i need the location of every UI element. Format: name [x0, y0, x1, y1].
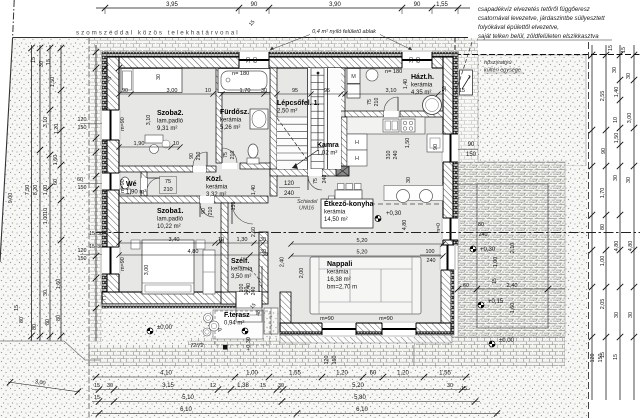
svg-text:30: 30 [613, 175, 619, 181]
level marker +-0,00 left [147, 328, 153, 334]
svg-text:30: 30 [447, 383, 453, 389]
svg-text:M: M [351, 74, 356, 80]
level marker +-0,00 right [489, 341, 495, 347]
window nappali bottom 1 [322, 321, 356, 337]
bottom paving brick strip in front of house [89, 344, 414, 366]
svg-text:60: 60 [463, 283, 469, 289]
svg-text:4,80: 4,80 [402, 220, 408, 231]
hazth dim row [345, 93, 443, 95]
svg-text:2,40: 2,40 [507, 283, 518, 289]
bottom dimension line 1 [92, 376, 470, 378]
partition stair south wall [270, 169, 308, 176]
svg-text:30: 30 [260, 237, 266, 243]
svg-text:95: 95 [292, 88, 298, 94]
svg-text:1,20: 1,20 [54, 124, 60, 135]
svg-text:30: 30 [107, 383, 113, 389]
svg-text:F.terasz: F.terasz [224, 312, 250, 319]
svg-text:15: 15 [613, 354, 619, 360]
svg-text:lam.padló: lam.padló [157, 119, 184, 125]
svg-text:5,80: 5,80 [354, 395, 366, 401]
svg-text:120: 120 [324, 356, 330, 365]
svg-text:240: 240 [284, 191, 295, 197]
vertical dashed connector top right [454, 38, 456, 55]
armchairs near terrace door [384, 186, 443, 201]
svg-text:6,10: 6,10 [180, 407, 192, 413]
svg-text:1,38: 1,38 [237, 383, 249, 389]
svg-text:80: 80 [45, 319, 51, 325]
svg-text:±0,00: ±0,00 [157, 325, 173, 331]
svg-text:1,55: 1,55 [439, 371, 451, 377]
svg-text:3,15: 3,15 [162, 383, 174, 389]
furdoszoba dim row [222, 93, 270, 95]
svg-text:210: 210 [208, 207, 214, 216]
stipple under building south facade [89, 311, 414, 345]
svg-text:10: 10 [613, 117, 619, 123]
svg-text:150: 150 [332, 356, 338, 365]
nappali bottom wall insulation [280, 332, 451, 335]
svg-text:30: 30 [626, 177, 632, 183]
nappali bottom wall masonry [280, 323, 451, 332]
svg-text:210: 210 [230, 151, 236, 160]
fridge [427, 134, 443, 152]
svg-text:1,50: 1,50 [614, 133, 620, 144]
svg-text:30: 30 [39, 61, 45, 67]
svg-text:3,10: 3,10 [43, 117, 49, 128]
svg-text:1,00: 1,00 [600, 256, 606, 267]
svg-text:Nappali: Nappali [327, 261, 352, 268]
exterior wall szelf bottom [221, 292, 268, 304]
building floor slab base [119, 68, 451, 335]
svg-text:1,30: 1,30 [237, 237, 248, 243]
left strip dashed edge [88, 38, 90, 418]
partition furdoszoba - lepcso [270, 68, 277, 196]
svg-text:kerámia: kerámia [220, 118, 242, 124]
window west wall we 60-150 [100, 173, 121, 190]
hazth washing machines [347, 69, 360, 84]
right lot dashed line vertical [588, 42, 590, 418]
svg-text:kültéri egysége: kültéri egysége [484, 68, 521, 74]
west slanted lot boundary line [0, 38, 13, 263]
svg-text:Lépcsőfel. 1.: Lépcsőfel. 1. [277, 100, 319, 107]
svg-text:1,00: 1,00 [43, 185, 49, 196]
svg-text:6,10: 6,10 [356, 407, 368, 413]
svg-text:30: 30 [246, 57, 252, 63]
exterior wall east insulation lower [451, 268, 454, 335]
svg-text:4,35 m²: 4,35 m² [411, 90, 431, 96]
svg-text:3,90: 3,90 [329, 2, 341, 8]
svg-text:2,10: 2,10 [510, 243, 516, 254]
window top wall furdoszoba 90 [239, 50, 269, 70]
door szoba2 [193, 166, 206, 172]
exterior wall east masonry upper [443, 57, 453, 245]
nappali exterior plinth band [280, 335, 452, 343]
right dashed property line at top [455, 54, 640, 56]
svg-text:90: 90 [189, 153, 195, 159]
bottom-right paving brick strip [414, 337, 565, 366]
svg-text:bm=2,70 m: bm=2,70 m [327, 285, 357, 291]
svg-text:5,20: 5,20 [352, 383, 364, 389]
svg-text:saját telken belül, zöldfelüle: saját telken belül, zöldfelületen elszik… [478, 33, 599, 40]
svg-text:150: 150 [78, 125, 87, 131]
svg-text:kerámia: kerámia [411, 83, 433, 89]
svg-text:kerámia: kerámia [231, 267, 253, 273]
svg-text:30: 30 [409, 57, 415, 63]
svg-text:3,32 m²: 3,32 m² [206, 192, 226, 198]
svg-text:m=90: m=90 [120, 257, 126, 271]
svg-text:2,40: 2,40 [246, 283, 252, 293]
north strip between boundary and house - light texture [89, 38, 478, 52]
exterior wall top masonry [107, 57, 453, 68]
svg-text:90: 90 [251, 2, 258, 8]
svg-text:15: 15 [492, 278, 498, 284]
svg-text:0,94 m²: 0,94 m² [224, 321, 244, 327]
exterior wall east insulation upper [453, 52, 458, 245]
svg-text:+0,30: +0,30 [480, 247, 496, 253]
leader from note to building [455, 42, 472, 95]
svg-text:60: 60 [77, 177, 83, 183]
level marker terasz +0,30 [470, 246, 476, 252]
exterior wall west insulation [102, 52, 107, 308]
svg-text:15: 15 [461, 386, 467, 392]
exterior wall west masonry [107, 57, 119, 304]
svg-text:Szoba1.: Szoba1. [157, 208, 184, 215]
west strip between boundary strip and house [89, 52, 102, 344]
svg-text:15: 15 [94, 395, 100, 401]
szoba2 desk and chair [145, 135, 163, 143]
partition above szoba1 [119, 196, 200, 203]
svg-text:m=90: m=90 [120, 179, 126, 193]
svg-text:72/72: 72/72 [191, 343, 204, 349]
svg-text:0,4 m² nyíló felületű ablak: 0,4 m² nyíló felületű ablak [312, 29, 377, 35]
svg-text:10: 10 [173, 141, 179, 147]
partition furdoszoba bottom [240, 163, 270, 169]
svg-text:15: 15 [46, 59, 52, 65]
partition we east wall [141, 172, 147, 196]
svg-text:+0,30: +0,30 [386, 211, 402, 217]
svg-text:m=90: m=90 [320, 316, 334, 322]
szoba1 dim row 2 [119, 254, 268, 256]
svg-text:m=0: m=0 [436, 223, 442, 233]
svg-text:30: 30 [262, 252, 268, 258]
svg-text:1,90: 1,90 [134, 141, 145, 147]
stair dim row [277, 93, 341, 95]
door hazth [384, 111, 398, 117]
nappali west wall [280, 292, 291, 335]
bank edge line bottom-left [0, 341, 100, 360]
svg-text:H: H [355, 156, 359, 162]
svg-text:240: 240 [427, 258, 436, 264]
dining table [335, 190, 362, 218]
level marker terrace +0,15 [478, 302, 484, 308]
svg-text:120: 120 [78, 248, 87, 254]
assorted ticks near top-left corner [102, 65, 108, 71]
svg-text:120: 120 [590, 354, 596, 363]
svg-text:150: 150 [78, 185, 87, 191]
svg-text:1,55: 1,55 [436, 2, 448, 8]
svg-text:75: 75 [313, 178, 319, 184]
svg-text:3,10: 3,10 [386, 88, 397, 94]
svg-text:3,00: 3,00 [167, 88, 178, 94]
svg-text:15: 15 [31, 57, 37, 63]
svg-text:100: 100 [239, 284, 245, 293]
svg-text:Étkező-konyha: Étkező-konyha [324, 199, 374, 208]
bottom-left ground stipple below bank line [0, 341, 89, 418]
svg-text:80: 80 [600, 224, 606, 230]
level marker f.terasz [242, 328, 248, 334]
svg-text:7,50: 7,50 [25, 185, 31, 196]
shower tray [250, 109, 268, 129]
bottom dimension line 2 [92, 389, 470, 391]
left dim column lines [31, 45, 33, 341]
exterior wall szelf east segment [259, 232, 268, 292]
exterior wall east masonry lower nappali [441, 268, 451, 335]
svg-text:2,40: 2,40 [280, 257, 286, 267]
chimney schiedel block [336, 166, 349, 176]
szoba2 interior dim row [119, 93, 216, 95]
svg-text:csatornával levezetve, járdasz: csatornával levezetve, járdaszintbe süll… [478, 15, 605, 22]
hazth boiler [423, 96, 442, 115]
svg-text:1,00: 1,00 [43, 214, 49, 225]
svg-text:30: 30 [614, 312, 620, 318]
svg-text:5,10: 5,10 [182, 395, 194, 401]
terrace dims [458, 288, 565, 290]
svg-text:10: 10 [43, 208, 49, 214]
svg-text:1,90 m²: 1,90 m² [126, 190, 146, 196]
svg-text:3,40: 3,40 [169, 237, 180, 243]
svg-text:60: 60 [370, 371, 377, 377]
svg-text:szomszéddal közös telekhatárvo: szomszéddal közös telekhatárvonal [76, 30, 240, 37]
east terrace brick paving [458, 162, 565, 337]
svg-text:Szélf.: Szélf. [231, 258, 249, 265]
kitchen stove [401, 119, 415, 132]
svg-text:1,02 m²: 1,02 m² [317, 151, 337, 157]
svg-text:10: 10 [205, 88, 211, 94]
svg-text:4,80: 4,80 [188, 249, 199, 255]
svg-text:80: 80 [56, 315, 62, 321]
kitchen sink [383, 119, 399, 132]
svg-text:80: 80 [478, 222, 484, 228]
svg-text:210: 210 [163, 187, 172, 193]
svg-text:Fürdősz.: Fürdősz. [220, 109, 249, 116]
svg-text:15: 15 [621, 47, 627, 53]
svg-text:3,50 m²: 3,50 m² [231, 274, 251, 280]
svg-text:9,00: 9,00 [8, 193, 14, 204]
east strip above terrace [458, 52, 478, 162]
svg-text:kerámia: kerámia [206, 185, 228, 191]
svg-text:+0,15: +0,15 [488, 299, 504, 305]
door east wall kitchen terrace 80-240 [441, 218, 460, 240]
svg-text:150: 150 [466, 152, 477, 158]
svg-text:30: 30 [97, 244, 103, 250]
svg-text:n= 180: n= 180 [385, 69, 402, 75]
szoba2 bed [121, 69, 182, 93]
top-left corner lot line vertical [13, 0, 15, 38]
svg-text:12: 12 [210, 383, 216, 389]
door kamra [308, 169, 322, 176]
right stipple strip south [565, 166, 588, 366]
svg-text:210: 210 [374, 98, 380, 107]
window east wall nappali 100-240 [439, 245, 456, 270]
f.terasz white slab [213, 310, 263, 339]
svg-text:210: 210 [196, 152, 202, 161]
svg-text:1,00: 1,00 [246, 371, 258, 377]
svg-text:30: 30 [261, 88, 267, 94]
svg-text:60: 60 [416, 57, 422, 63]
top property line [13, 37, 468, 39]
wc we room [120, 189, 131, 194]
svg-text:5,20: 5,20 [357, 238, 368, 244]
door furdoszoba [222, 163, 237, 169]
partition hazth west [339, 68, 345, 111]
svg-text:75: 75 [223, 152, 229, 158]
window west wall szoba1 150 [100, 247, 121, 274]
svg-text:120: 120 [78, 117, 87, 123]
left dim line inner near wall [95, 45, 97, 341]
stair left flight treads [277, 116, 308, 118]
svg-text:+0,30: +0,30 [246, 337, 252, 351]
exterior wall bottom szoba1 masonry [102, 292, 236, 304]
svg-text:Szoba2.: Szoba2. [157, 110, 184, 117]
svg-text:1,50: 1,50 [50, 77, 56, 88]
big right stipple green area [478, 55, 586, 172]
svg-text:30: 30 [278, 383, 284, 389]
svg-text:30: 30 [43, 290, 49, 296]
door szoba1 [200, 196, 214, 203]
entry walk brick paving [188, 338, 310, 366]
svg-text:15: 15 [94, 383, 100, 389]
svg-text:15: 15 [260, 383, 266, 389]
etkezo dim rows [291, 243, 443, 245]
svg-text:1,70: 1,70 [600, 188, 606, 199]
svg-text:150: 150 [78, 256, 87, 262]
window top wall hazth 90 [402, 50, 432, 70]
svg-text:75: 75 [367, 99, 373, 105]
partition kamra - kitchen [341, 117, 347, 167]
svg-text:Közl.: Közl. [206, 176, 223, 183]
svg-text:60: 60 [253, 57, 259, 63]
svg-text:310: 310 [386, 151, 392, 160]
kitchen tall units H [347, 134, 367, 150]
szoba1 nightstands [131, 240, 140, 249]
svg-text:10: 10 [218, 239, 224, 245]
window nappali bottom 2 [382, 321, 416, 337]
svg-text:240: 240 [322, 175, 328, 184]
svg-text:15: 15 [89, 231, 95, 237]
svg-text:15: 15 [459, 88, 465, 94]
svg-text:2,60: 2,60 [251, 227, 257, 237]
svg-text:30: 30 [156, 74, 162, 80]
svg-text:90: 90 [414, 2, 421, 8]
svg-text:120: 120 [284, 181, 295, 187]
nappali sofa [310, 257, 421, 314]
terrace inner outline [477, 184, 548, 328]
svg-text:lam.padló: lam.padló [157, 217, 184, 223]
entry door opening szelf [236, 292, 262, 308]
partition szoba2 bottom [119, 166, 193, 172]
exterior wall top insulation [102, 52, 458, 57]
svg-text:30: 30 [406, 177, 412, 183]
svg-text:5,20: 5,20 [357, 250, 368, 256]
svg-text:Házt.h.: Házt.h. [411, 74, 434, 81]
porch canopy dashed outline [215, 311, 270, 345]
svg-text:5,26 m²: 5,26 m² [220, 125, 240, 131]
bottom stipple apron with dimension lines [89, 366, 588, 418]
terrace top edge connector [457, 184, 477, 186]
left neighbour strip stipple ground [0, 38, 89, 418]
svg-text:4,80: 4,80 [614, 241, 620, 252]
svg-text:Wé: Wé [126, 181, 137, 188]
svg-text:kerámia: kerámia [324, 210, 346, 216]
bottom dimension line 4 [92, 413, 500, 415]
wc furdoszoba [247, 158, 259, 164]
svg-text:1,00: 1,00 [493, 257, 499, 268]
svg-text:3,10: 3,10 [146, 115, 152, 126]
svg-text:150: 150 [598, 354, 604, 363]
svg-text:16,38 m²: 16,38 m² [327, 277, 351, 283]
heat pump outdoor unit [460, 70, 473, 95]
right dim ticks [589, 52, 595, 58]
exterior wall bottom szoba1 insulation [102, 304, 236, 308]
svg-text:30: 30 [442, 86, 448, 92]
svg-text:10,22 m²: 10,22 m² [157, 224, 181, 230]
stair break line [277, 118, 308, 160]
door we [141, 178, 147, 191]
svg-text:2,55: 2,55 [600, 91, 606, 102]
svg-text:80: 80 [32, 324, 38, 330]
svg-text:90: 90 [201, 208, 207, 214]
svg-text:4,80: 4,80 [628, 241, 634, 252]
svg-text:UNI16: UNI16 [299, 206, 314, 212]
svg-text:Kamra: Kamra [317, 142, 339, 149]
bottom dimension line 3 [92, 401, 480, 403]
svg-text:folyókával épülettől elvezetve: folyókával épülettől elvezetve, [478, 24, 559, 31]
section line A-A horizontal dash-dot [96, 232, 640, 234]
partition szoba2 - furdoszoba [216, 68, 222, 163]
svg-text:14,50 m²: 14,50 m² [324, 217, 348, 223]
svg-text:95: 95 [324, 88, 330, 94]
svg-text:80: 80 [19, 317, 25, 323]
svg-text:130: 130 [231, 202, 237, 211]
svg-text:±0,00: ±0,00 [499, 338, 515, 344]
top main dimension line [96, 7, 470, 9]
svg-text:30: 30 [612, 67, 618, 73]
svg-text:30: 30 [97, 231, 103, 237]
stair treads [311, 67, 324, 69]
svg-text:9,31 m²: 9,31 m² [157, 126, 177, 132]
stair walk line arrow [292, 73, 318, 168]
label etkezo callout box [321, 199, 373, 228]
partition hazth bottom [345, 111, 384, 117]
svg-text:2,05: 2,05 [600, 299, 606, 310]
svg-text:3,00: 3,00 [627, 113, 633, 124]
entry steps outside [236, 308, 262, 322]
svg-text:90: 90 [433, 144, 439, 150]
svg-text:1,20: 1,20 [397, 371, 409, 377]
bottom-left slanted lot dimension 3,00 [8, 382, 80, 392]
stair zone white floor [307, 68, 341, 169]
svg-text:C: C [102, 296, 106, 302]
svg-text:3,00: 3,00 [144, 265, 150, 276]
gallery edge dashed line [330, 203, 443, 205]
svg-text:1,20: 1,20 [336, 371, 348, 377]
hazth basin [366, 69, 378, 81]
szoba1 bed [142, 240, 194, 294]
svg-text:2,00: 2,00 [299, 268, 305, 279]
svg-text:1,50: 1,50 [405, 138, 411, 149]
svg-text:m=90: m=90 [379, 316, 393, 322]
door szelf from kozl [232, 203, 253, 224]
kitchen top counter [347, 117, 425, 134]
